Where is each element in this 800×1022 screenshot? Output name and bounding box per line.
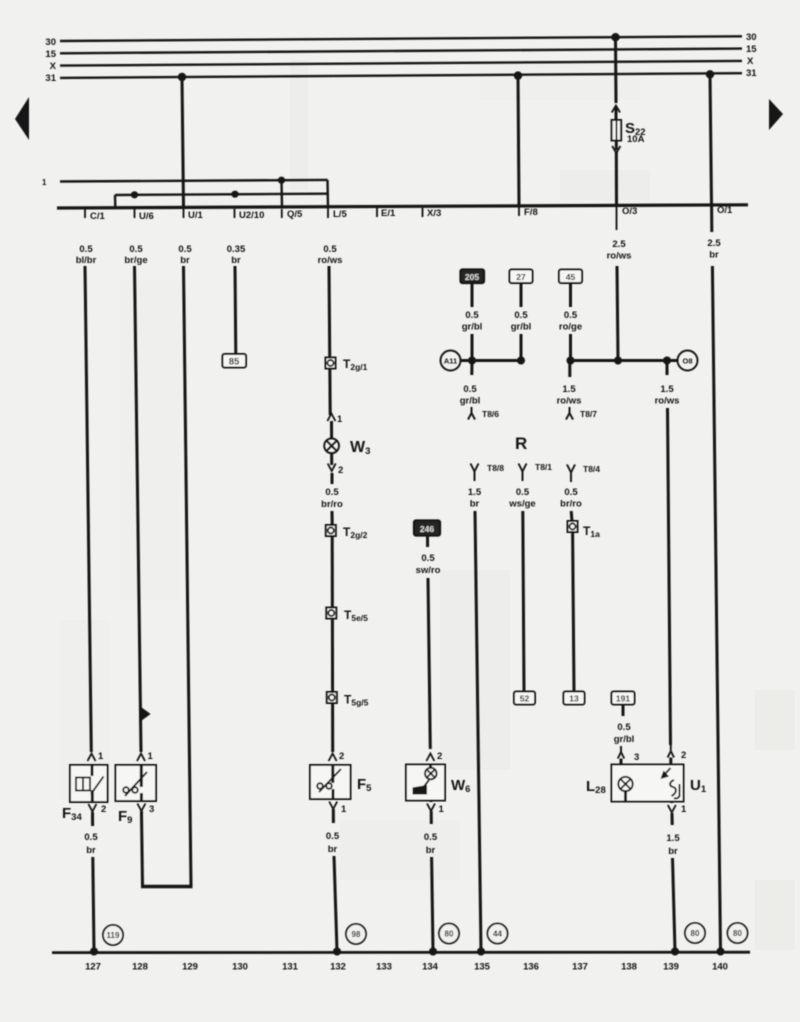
svg-text:45: 45	[566, 272, 576, 282]
svg-text:15: 15	[746, 44, 757, 55]
svg-text:C/1: C/1	[90, 211, 106, 222]
svg-text:1: 1	[337, 414, 343, 425]
svg-text:0.5: 0.5	[424, 832, 438, 843]
svg-text:0.5: 0.5	[617, 722, 631, 733]
svg-text:X: X	[747, 56, 754, 67]
svg-text:85: 85	[229, 357, 240, 368]
svg-text:134: 134	[422, 962, 439, 973]
svg-text:140: 140	[712, 962, 728, 973]
svg-text:130: 130	[232, 962, 248, 973]
svg-text:0.5: 0.5	[463, 384, 477, 395]
svg-text:1: 1	[439, 804, 445, 815]
svg-text:A11: A11	[444, 357, 457, 366]
svg-text:ro/ws: ro/ws	[655, 396, 680, 407]
svg-text:80: 80	[445, 930, 454, 939]
svg-text:0.5: 0.5	[178, 244, 192, 255]
svg-text:132: 132	[330, 962, 346, 973]
svg-text:2: 2	[338, 465, 343, 476]
svg-text:br/ro: br/ro	[560, 499, 582, 510]
svg-text:ro/ge: ro/ge	[559, 322, 582, 333]
svg-text:131: 131	[282, 962, 299, 973]
svg-text:2.5: 2.5	[612, 239, 626, 250]
svg-text:2.5: 2.5	[707, 238, 721, 249]
svg-text:31: 31	[746, 68, 757, 79]
svg-text:2: 2	[101, 804, 106, 815]
svg-text:1.5: 1.5	[468, 487, 482, 498]
svg-text:2: 2	[437, 751, 442, 762]
svg-text:1.5: 1.5	[666, 833, 680, 844]
svg-text:sw/ro: sw/ro	[416, 565, 441, 576]
svg-text:31: 31	[45, 73, 56, 84]
svg-text:2: 2	[339, 751, 344, 762]
svg-text:0.5: 0.5	[465, 310, 479, 321]
svg-text:F/8: F/8	[524, 207, 538, 218]
svg-text:3: 3	[149, 804, 154, 815]
svg-text:44: 44	[493, 930, 502, 939]
svg-text:br/ge: br/ge	[124, 255, 147, 266]
svg-text:U/1: U/1	[188, 210, 204, 221]
svg-text:ro/ws: ro/ws	[318, 255, 343, 266]
svg-text:gr/bl: gr/bl	[511, 322, 532, 333]
svg-text:139: 139	[663, 962, 679, 973]
svg-text:129: 129	[182, 962, 198, 973]
svg-text:br: br	[86, 845, 96, 856]
svg-text:T8/1: T8/1	[535, 462, 552, 472]
svg-text:137: 137	[572, 962, 588, 973]
svg-text:2: 2	[681, 750, 686, 761]
svg-text:1.5: 1.5	[660, 384, 674, 395]
svg-text:O/1: O/1	[717, 205, 733, 216]
svg-text:0.5: 0.5	[564, 310, 578, 321]
svg-text:1: 1	[341, 804, 347, 815]
svg-text:0.5: 0.5	[325, 487, 339, 498]
svg-text:52: 52	[520, 694, 530, 704]
svg-text:bl/br: bl/br	[76, 255, 97, 266]
svg-text:27: 27	[516, 272, 526, 282]
svg-text:0.35: 0.35	[227, 244, 246, 255]
svg-text:X/3: X/3	[427, 208, 441, 219]
svg-text:U/6: U/6	[139, 211, 154, 222]
svg-text:1: 1	[148, 751, 154, 762]
svg-text:R: R	[515, 434, 527, 453]
svg-text:T8/8: T8/8	[487, 463, 504, 473]
svg-text:0.5: 0.5	[79, 244, 93, 255]
svg-text:O/3: O/3	[622, 206, 637, 217]
svg-text:3: 3	[634, 752, 639, 763]
svg-text:30: 30	[746, 32, 757, 43]
svg-text:119: 119	[107, 931, 120, 940]
svg-text:191: 191	[616, 694, 630, 704]
svg-text:T8/7: T8/7	[580, 409, 597, 419]
svg-text:br: br	[328, 844, 338, 855]
svg-text:br: br	[709, 250, 719, 261]
svg-text:gr/bl: gr/bl	[462, 322, 483, 333]
svg-text:80: 80	[691, 929, 700, 938]
svg-text:br: br	[426, 845, 436, 856]
svg-text:gr/bl: gr/bl	[460, 396, 481, 407]
svg-text:15: 15	[45, 49, 56, 60]
svg-text:30: 30	[45, 37, 56, 48]
svg-text:br: br	[231, 255, 241, 266]
svg-text:0.5: 0.5	[516, 487, 530, 498]
svg-text:98: 98	[352, 930, 361, 939]
svg-text:ro/ws: ro/ws	[557, 396, 582, 407]
svg-text:133: 133	[376, 962, 392, 973]
svg-text:1.5: 1.5	[562, 384, 576, 395]
svg-text:128: 128	[132, 962, 148, 973]
svg-text:0.5: 0.5	[564, 487, 578, 498]
svg-text:246: 246	[420, 524, 434, 534]
svg-text:1: 1	[681, 804, 687, 815]
svg-text:1: 1	[42, 178, 47, 187]
svg-text:138: 138	[621, 962, 637, 973]
svg-text:U2/10: U2/10	[239, 210, 264, 221]
svg-text:0.5: 0.5	[129, 244, 143, 255]
svg-text:10A: 10A	[627, 134, 645, 145]
svg-text:127: 127	[85, 962, 101, 973]
svg-text:O8: O8	[682, 357, 692, 366]
svg-text:ws/ge: ws/ge	[508, 499, 535, 510]
svg-text:br: br	[180, 255, 190, 266]
svg-text:205: 205	[465, 272, 479, 282]
svg-text:gr/bl: gr/bl	[614, 734, 635, 745]
svg-text:br/ro: br/ro	[321, 499, 343, 510]
svg-text:135: 135	[474, 962, 491, 973]
svg-text:ro/ws: ro/ws	[607, 251, 632, 262]
svg-text:br: br	[668, 846, 678, 857]
svg-text:80: 80	[733, 929, 742, 938]
svg-text:0.5: 0.5	[514, 310, 528, 321]
svg-text:1: 1	[98, 751, 104, 762]
svg-text:X: X	[50, 61, 57, 72]
svg-text:L/5: L/5	[333, 209, 347, 220]
svg-text:0.5: 0.5	[84, 832, 98, 843]
svg-text:E/1: E/1	[381, 208, 396, 219]
svg-text:0.5: 0.5	[323, 244, 337, 255]
svg-text:0.5: 0.5	[326, 831, 340, 842]
svg-text:136: 136	[523, 962, 539, 973]
svg-text:T8/4: T8/4	[583, 464, 600, 474]
svg-text:0.5: 0.5	[421, 553, 435, 564]
svg-text:13: 13	[569, 694, 579, 704]
svg-text:T8/6: T8/6	[482, 409, 499, 419]
svg-text:Q/5: Q/5	[287, 209, 303, 220]
svg-text:br: br	[470, 499, 480, 510]
